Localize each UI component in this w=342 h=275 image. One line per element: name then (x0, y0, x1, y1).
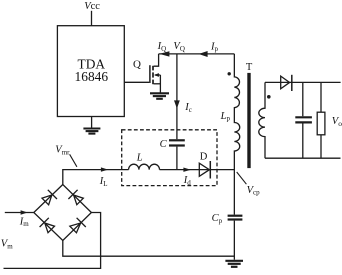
label L (136, 153, 143, 164)
ground under U1 (83, 129, 100, 134)
capacitor C (169, 140, 185, 145)
transistor Q1 MOSFET (150, 54, 161, 93)
label T (246, 62, 253, 73)
svg-text:Q: Q (133, 58, 141, 70)
label Im (19, 216, 30, 228)
output filter capacitor (295, 117, 312, 122)
current arrow Ip (199, 51, 208, 57)
svg-text:Vcc: Vcc (84, 1, 100, 12)
bridge diode BR1 (left to top) (42, 190, 57, 205)
node Vcp pointer (237, 172, 247, 184)
primary phase dot (228, 72, 231, 75)
label C (160, 139, 168, 150)
svg-text:Im: Im (19, 216, 30, 228)
node VQ label (173, 41, 184, 53)
svg-text:IL: IL (99, 176, 108, 188)
current arrow IQ (159, 51, 169, 56)
svg-text:T: T (246, 62, 253, 73)
wire drain / node VQ / to transformer primary (159, 53, 235, 55)
wire AC return from right vertex (4, 213, 101, 269)
svg-text:C: C (160, 139, 168, 150)
svg-text:IQ: IQ (157, 41, 167, 53)
label Id (183, 175, 192, 187)
secondary phase dot (267, 95, 271, 99)
svg-text:Ic: Ic (184, 102, 192, 114)
label IQ (157, 41, 167, 53)
label Lp (220, 111, 231, 123)
current arrow IL (101, 167, 108, 171)
output filter capacitor wire (302, 82, 304, 158)
output bottom rail wire (265, 157, 341, 159)
transformer core (247, 73, 250, 168)
wire U1 output to gate of Q (124, 81, 149, 83)
wire node VQ down to capacitor C (176, 54, 178, 139)
net Vcc label (84, 1, 100, 12)
pointer line for Vmr (70, 154, 77, 167)
label Vm (1, 239, 13, 251)
dashed box around snubber network (122, 130, 217, 186)
capacitor Cp (228, 216, 243, 220)
svg-text:VQ: VQ (173, 41, 184, 53)
svg-text:Ip: Ip (210, 41, 219, 53)
label Cp (212, 213, 223, 225)
svg-text:L: L (136, 153, 143, 164)
current arrow Id (183, 168, 191, 172)
label Ip (210, 41, 219, 53)
main ground symbol (225, 261, 243, 267)
label D (200, 151, 208, 162)
wire C bottom to L-D node (176, 147, 178, 170)
svg-text:Cp: Cp (212, 213, 223, 225)
label Ic (184, 102, 192, 114)
svg-text:Vcp: Vcp (247, 185, 261, 197)
wire bridge bottom to ground rail (63, 241, 235, 257)
output top rail wire (265, 81, 341, 83)
transformer secondary winding (259, 82, 265, 158)
svg-text:Vmr: Vmr (55, 145, 70, 157)
bridge diode BR3 (bottom to left) (40, 218, 55, 233)
ground at Q source (150, 93, 169, 99)
wire Vcc to U1 (91, 11, 93, 26)
secondary rectifier diode D2 (281, 76, 290, 89)
wire U1 to ground (91, 117, 93, 129)
IC U1 TDA 16846 (57, 26, 124, 117)
inductor L (129, 164, 160, 169)
transformer T primary winding Lp (234, 54, 239, 215)
svg-text:Id: Id (183, 175, 192, 187)
svg-text:Vm: Vm (1, 239, 13, 251)
label IL (99, 176, 108, 188)
load resistor (317, 112, 325, 135)
load resistor wire (320, 82, 322, 158)
node Vcp label (247, 185, 261, 197)
svg-text:Lp: Lp (220, 111, 231, 123)
svg-text:16846: 16846 (75, 69, 109, 84)
svg-text:D: D (200, 151, 208, 162)
label Vo (332, 116, 342, 128)
current arrow Ic (174, 100, 180, 108)
wire bridge top to inductor L (63, 170, 129, 185)
wire AC input (5, 212, 34, 214)
label Q (133, 58, 141, 70)
wire L to diode D and on to node Vcp (160, 169, 235, 171)
bridge diode BR4 (bottom to right) (70, 218, 86, 233)
bridge diode BR2 (right to top) (68, 190, 83, 205)
wire Cp to ground (233, 221, 235, 260)
node Vmr label (55, 145, 70, 157)
diode D (199, 163, 209, 176)
bridge rectifier diamond (34, 185, 92, 241)
svg-text:Vo: Vo (332, 116, 342, 128)
current arrow Im (21, 210, 28, 214)
